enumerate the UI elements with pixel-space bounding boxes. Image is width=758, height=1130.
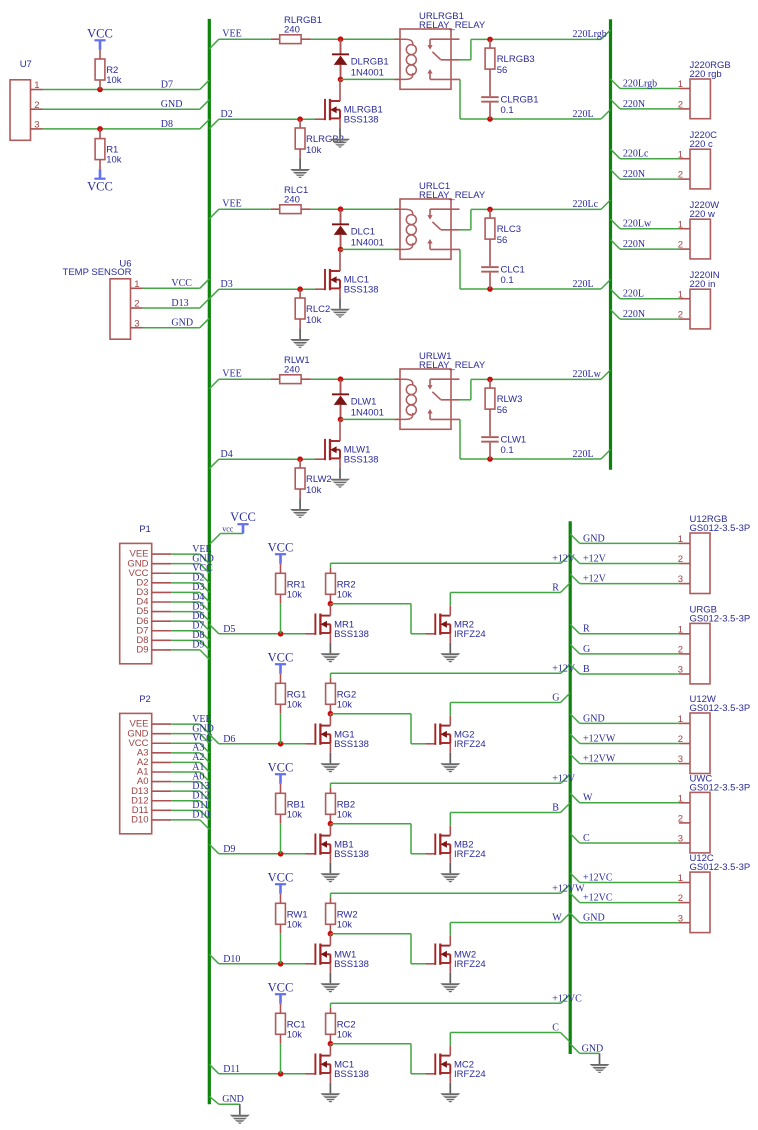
svg-text:1N4001: 1N4001 <box>351 408 384 419</box>
svg-text:VCC: VCC <box>171 278 192 289</box>
svg-text:CLC1: CLC1 <box>501 265 525 276</box>
svg-text:VCC: VCC <box>268 871 294 885</box>
svg-text:2: 2 <box>134 299 139 310</box>
svg-text:IRFZ24: IRFZ24 <box>454 629 486 640</box>
svg-text:10k: 10k <box>287 919 303 930</box>
svg-text:BSS138: BSS138 <box>334 959 369 970</box>
svg-text:GND: GND <box>161 99 183 110</box>
svg-text:1: 1 <box>134 279 139 290</box>
svg-text:CLRGB1: CLRGB1 <box>501 95 539 106</box>
svg-text:D9: D9 <box>192 640 204 651</box>
svg-text:RLRGB3: RLRGB3 <box>497 54 535 65</box>
svg-text:RLW3: RLW3 <box>497 394 523 405</box>
svg-text:240: 240 <box>284 195 300 206</box>
svg-text:0.1: 0.1 <box>501 445 514 456</box>
svg-text:BSS138: BSS138 <box>334 739 369 750</box>
svg-text:VEE: VEE <box>222 199 241 210</box>
svg-text:C: C <box>552 1023 559 1034</box>
svg-text:IRFZ24: IRFZ24 <box>454 1069 486 1080</box>
svg-text:2: 2 <box>34 100 39 111</box>
svg-text:BSS138: BSS138 <box>334 849 369 860</box>
svg-text:DLW1: DLW1 <box>351 397 377 408</box>
svg-text:VEE: VEE <box>222 29 241 40</box>
svg-text:220N: 220N <box>623 99 645 110</box>
svg-text:GND: GND <box>222 1094 244 1105</box>
svg-text:220N: 220N <box>623 169 645 180</box>
svg-text:IRFZ24: IRFZ24 <box>454 959 486 970</box>
svg-text:vcc: vcc <box>222 525 234 534</box>
svg-text:220Lc: 220Lc <box>573 199 599 210</box>
svg-text:W: W <box>583 793 593 804</box>
svg-text:220 in: 220 in <box>690 279 716 290</box>
svg-text:10k: 10k <box>287 699 303 710</box>
svg-text:RLC3: RLC3 <box>497 224 521 235</box>
svg-text:D10: D10 <box>131 815 148 826</box>
svg-text:220L: 220L <box>573 449 594 460</box>
svg-text:VCC: VCC <box>87 180 113 194</box>
svg-text:GND: GND <box>583 913 605 924</box>
svg-text:G: G <box>552 693 559 704</box>
svg-text:P1: P1 <box>139 524 151 535</box>
svg-text:1N4001: 1N4001 <box>351 238 384 249</box>
svg-text:GND: GND <box>582 1043 604 1054</box>
svg-text:R: R <box>583 624 590 635</box>
svg-text:220Lc: 220Lc <box>623 149 649 160</box>
svg-text:10k: 10k <box>337 809 353 820</box>
svg-text:10k: 10k <box>337 919 353 930</box>
svg-text:+12VW: +12VW <box>583 733 616 744</box>
svg-text:GS012-3.5-3P: GS012-3.5-3P <box>690 523 751 534</box>
svg-text:BSS138: BSS138 <box>344 454 379 465</box>
svg-text:240: 240 <box>284 25 300 36</box>
svg-text:+12VC: +12VC <box>552 993 582 1004</box>
svg-text:+12V: +12V <box>583 574 607 585</box>
svg-text:D8: D8 <box>161 119 173 130</box>
svg-text:GS012-3.5-3P: GS012-3.5-3P <box>690 862 751 873</box>
svg-text:220 rgb: 220 rgb <box>690 69 722 80</box>
svg-text:BSS138: BSS138 <box>334 1069 369 1080</box>
svg-text:220L: 220L <box>573 109 594 120</box>
svg-text:10k: 10k <box>106 75 122 86</box>
svg-text:VEE: VEE <box>222 369 241 380</box>
svg-text:10k: 10k <box>287 589 303 600</box>
svg-text:+12V: +12V <box>552 553 576 564</box>
svg-text:220Lrgb: 220Lrgb <box>573 29 607 40</box>
svg-text:D13: D13 <box>171 298 188 309</box>
svg-text:VCC: VCC <box>268 541 294 555</box>
svg-text:220 w: 220 w <box>690 209 715 220</box>
svg-text:RELAY_RELAY: RELAY_RELAY <box>419 360 486 371</box>
svg-text:BSS138: BSS138 <box>334 629 369 640</box>
svg-text:10k: 10k <box>287 1029 303 1040</box>
svg-text:D7: D7 <box>161 79 173 90</box>
svg-text:D9: D9 <box>136 645 148 656</box>
svg-text:RLC2: RLC2 <box>306 304 330 315</box>
svg-text:10k: 10k <box>306 315 322 326</box>
svg-text:TEMP SENSOR: TEMP SENSOR <box>63 267 132 278</box>
svg-text:DLC1: DLC1 <box>351 227 375 238</box>
svg-text:+12VC: +12VC <box>583 872 613 883</box>
svg-text:IRFZ24: IRFZ24 <box>454 739 486 750</box>
svg-text:CLW1: CLW1 <box>501 435 527 446</box>
svg-text:GS012-3.5-3P: GS012-3.5-3P <box>690 703 751 714</box>
svg-text:W: W <box>552 913 562 924</box>
svg-text:GND: GND <box>583 533 605 544</box>
svg-text:VCC: VCC <box>268 981 294 995</box>
svg-text:RLW2: RLW2 <box>306 474 332 485</box>
svg-text:220L: 220L <box>623 289 644 300</box>
svg-text:56: 56 <box>497 65 508 76</box>
svg-text:+12V: +12V <box>583 553 607 564</box>
svg-text:56: 56 <box>497 405 508 416</box>
svg-text:GND: GND <box>583 713 605 724</box>
svg-text:RELAY_RELAY: RELAY_RELAY <box>419 190 486 201</box>
svg-text:220Lw: 220Lw <box>623 219 652 230</box>
svg-text:B: B <box>583 664 590 675</box>
svg-text:0.1: 0.1 <box>501 105 514 116</box>
svg-text:0.1: 0.1 <box>501 275 514 286</box>
svg-text:10k: 10k <box>337 1029 353 1040</box>
svg-text:220Lw: 220Lw <box>573 369 602 380</box>
svg-text:220Lrgb: 220Lrgb <box>623 78 657 89</box>
svg-text:+12VW: +12VW <box>552 883 585 894</box>
svg-text:VCC: VCC <box>87 27 113 41</box>
svg-text:+12V: +12V <box>552 663 576 674</box>
svg-text:D10: D10 <box>192 810 209 821</box>
svg-text:240: 240 <box>284 365 300 376</box>
svg-text:+12VC: +12VC <box>583 893 613 904</box>
svg-text:2: 2 <box>678 814 683 825</box>
svg-text:VCC: VCC <box>268 651 294 665</box>
svg-text:DLRGB1: DLRGB1 <box>351 57 389 68</box>
svg-text:10k: 10k <box>306 145 322 156</box>
svg-text:GND: GND <box>171 318 193 329</box>
svg-text:10k: 10k <box>287 809 303 820</box>
svg-text:G: G <box>583 644 590 655</box>
svg-text:10k: 10k <box>306 485 322 496</box>
svg-text:IRFZ24: IRFZ24 <box>454 849 486 860</box>
svg-text:BSS138: BSS138 <box>344 284 379 295</box>
svg-text:10k: 10k <box>337 589 353 600</box>
svg-text:U7: U7 <box>20 59 32 70</box>
svg-text:+12VW: +12VW <box>583 754 616 765</box>
svg-text:VCC: VCC <box>230 510 256 524</box>
svg-text:RELAY_RELAY: RELAY_RELAY <box>419 20 486 31</box>
svg-text:GS012-3.5-3P: GS012-3.5-3P <box>690 613 751 624</box>
svg-text:1: 1 <box>34 80 39 91</box>
svg-text:VCC: VCC <box>268 761 294 775</box>
svg-text:10k: 10k <box>106 155 122 166</box>
svg-text:56: 56 <box>497 235 508 246</box>
svg-text:220N: 220N <box>623 309 645 320</box>
svg-text:GS012-3.5-3P: GS012-3.5-3P <box>690 782 751 793</box>
svg-text:3: 3 <box>34 120 39 131</box>
svg-text:10k: 10k <box>337 699 353 710</box>
svg-text:P2: P2 <box>139 694 151 705</box>
svg-text:220L: 220L <box>573 279 594 290</box>
svg-text:220 c: 220 c <box>690 139 713 150</box>
svg-text:3: 3 <box>134 318 139 329</box>
svg-text:R: R <box>552 583 559 594</box>
svg-text:BSS138: BSS138 <box>344 114 379 125</box>
svg-text:C: C <box>583 833 590 844</box>
svg-text:1N4001: 1N4001 <box>351 68 384 79</box>
svg-text:220N: 220N <box>623 239 645 250</box>
svg-text:+12V: +12V <box>552 773 576 784</box>
svg-text:B: B <box>552 803 559 814</box>
